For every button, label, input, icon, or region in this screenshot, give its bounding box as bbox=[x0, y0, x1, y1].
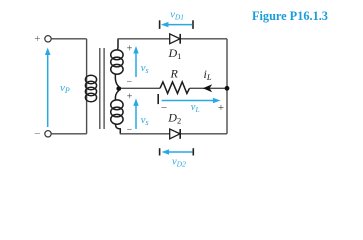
resistor R bbox=[160, 82, 190, 94]
iL current arrowhead bbox=[203, 84, 212, 92]
wire top-left horizontal bbox=[51, 38, 86, 40]
svg-text:R: R bbox=[170, 67, 179, 81]
terminal circle top-left bbox=[45, 36, 51, 42]
vD2 measurement ticks bbox=[159, 148, 161, 155]
svg-text:+: + bbox=[127, 43, 133, 54]
vL arrow bbox=[162, 98, 221, 103]
terminal circle bottom-left bbox=[45, 131, 51, 137]
svg-text:−: − bbox=[161, 102, 167, 114]
wire resistor to right rail bbox=[190, 87, 228, 89]
wire top rail bbox=[118, 38, 170, 40]
vP arrow bbox=[45, 48, 51, 128]
wire bottom rail bbox=[120, 133, 170, 135]
vL measurement tick bbox=[157, 94, 159, 104]
wire bottom-left horizontal bbox=[51, 133, 86, 135]
svg-text:+: + bbox=[127, 91, 133, 102]
svg-text:Figure P16.1.3: Figure P16.1.3 bbox=[252, 9, 328, 23]
vD1 measurement ticks bbox=[159, 20, 161, 29]
vD2 arrow bbox=[162, 149, 193, 154]
secondary upper coil winding bbox=[111, 39, 123, 87]
wire right rail bbox=[226, 39, 228, 134]
svg-text:−: − bbox=[126, 77, 132, 88]
diode D1 bbox=[170, 34, 181, 44]
svg-text:−: − bbox=[34, 128, 40, 140]
diode D2 bbox=[170, 129, 181, 139]
vD1 arrow bbox=[161, 22, 192, 27]
vS upper arrow bbox=[133, 46, 138, 77]
svg-text:+: + bbox=[34, 33, 40, 45]
junction node right bbox=[225, 86, 230, 91]
vS lower arrow bbox=[133, 98, 138, 129]
wire center tap to resistor bbox=[121, 87, 160, 89]
center tap node bbox=[116, 86, 121, 91]
secondary lower coil winding bbox=[111, 91, 123, 134]
svg-text:+: + bbox=[218, 102, 224, 114]
transformer core lines bbox=[99, 48, 101, 129]
wire primary vertical bbox=[86, 39, 88, 134]
primary coil winding bbox=[85, 75, 96, 102]
